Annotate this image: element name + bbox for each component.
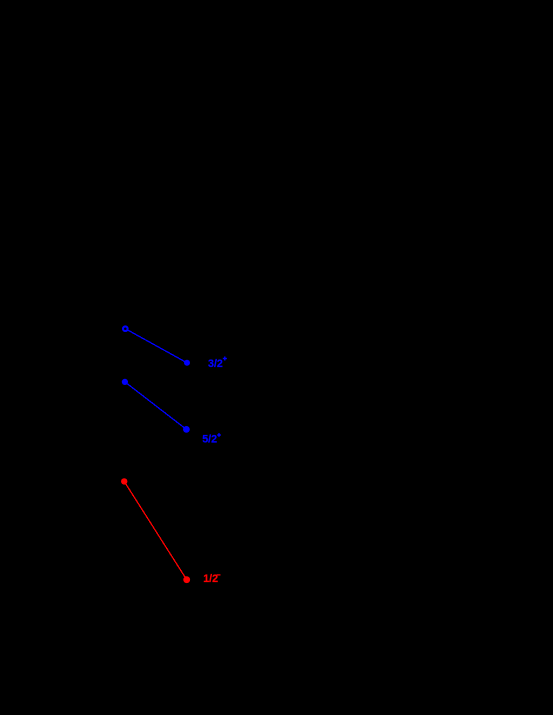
node: closed endpoint of segment 2 (bottom) [183, 426, 190, 433]
node: open endpoint of segment 1 [123, 326, 128, 331]
wire: blue segment 2 (5/2) [125, 382, 186, 430]
label 5/2+ [202, 433, 221, 446]
node: closed endpoint of segment 3 (top) [121, 478, 127, 484]
label 3/2+ [208, 357, 227, 371]
node: closed endpoint of segment 3 (bottom) [183, 576, 190, 583]
node: closed endpoint of segment 2 (top) [122, 379, 128, 385]
node: closed endpoint of segment 1 [184, 360, 190, 366]
svg-text:5/2: 5/2 [202, 434, 217, 446]
wire: red segment 3 (1/2) [124, 481, 187, 579]
svg-text:1/2: 1/2 [203, 573, 218, 585]
label 1/2- [203, 573, 220, 585]
wire: blue segment 1 (3/2) [125, 329, 187, 363]
svg-text:3/2: 3/2 [208, 358, 223, 370]
